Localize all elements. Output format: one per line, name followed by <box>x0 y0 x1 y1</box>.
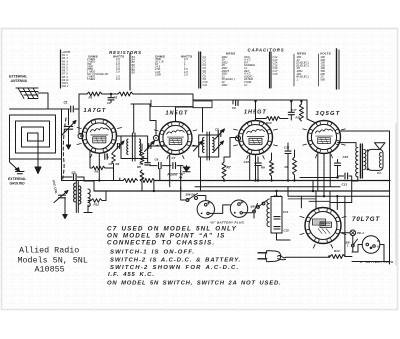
wire V4 to output transformer <box>338 143 357 147</box>
wire T2 to V1 <box>117 136 160 146</box>
wire rail B minus <box>62 180 124 182</box>
svg-text:R13: R13 <box>334 249 340 253</box>
svg-text:C11: C11 <box>203 83 208 87</box>
B battery plug J1 right <box>230 200 247 217</box>
tube V4 3Q5GT <box>303 121 346 158</box>
wire top rail <box>79 93 87 95</box>
svg-text:C7: C7 <box>172 156 176 160</box>
svg-text:A–: A– <box>376 246 381 249</box>
svg-text:1A7GT: 1A7GT <box>84 108 107 114</box>
svg-text:C13: C13 <box>342 183 348 187</box>
grid cap V2 <box>153 135 158 140</box>
wire second rail <box>131 103 151 105</box>
wire point A <box>180 166 182 191</box>
osc trimmer arrow <box>59 195 66 198</box>
svg-text:MFDS: MFDS <box>297 52 306 56</box>
svg-text:SW-2: SW-2 <box>274 194 282 198</box>
ground <box>68 139 70 145</box>
svg-text:C11: C11 <box>284 146 290 150</box>
svg-text:I.F.: I.F. <box>244 83 248 87</box>
tube V1 1A7GT <box>77 119 121 158</box>
resistor R12 <box>91 199 102 203</box>
wire junction <box>290 100 292 102</box>
svg-text:C17: C17 <box>291 108 297 112</box>
capacitor table right border <box>336 49 338 89</box>
resistor R3 <box>92 166 105 170</box>
wire between plugs <box>209 205 252 214</box>
title block Allied Radio <box>18 246 88 275</box>
scan edge shadow <box>395 123 397 266</box>
wire V1 cathode <box>90 150 114 181</box>
svg-text:R11 2: R11 2 <box>62 85 69 88</box>
wire A plug <box>345 213 362 257</box>
T3 trimmer left <box>194 141 203 151</box>
svg-text:SWITCH-2 IS A.C-D.C. & BATTER: SWITCH-2 IS A.C-D.C. & BATTERY. <box>110 257 241 263</box>
svg-text:SWITCH-2 SHOWN FOR A.C-D.C.: SWITCH-2 SHOWN FOR A.C-D.C. <box>110 265 239 271</box>
wire antenna to loop <box>38 93 48 109</box>
svg-text:C14: C14 <box>283 210 289 214</box>
svg-text:R1: R1 <box>89 96 93 100</box>
svg-text:C1: C1 <box>64 101 68 105</box>
svg-text:PIL-1: PIL-1 <box>357 231 364 235</box>
svg-text:5 MEG: 5 MEG <box>87 77 95 81</box>
svg-text:C10: C10 <box>244 160 250 164</box>
svg-text:.0001: .0001 <box>221 83 228 87</box>
svg-text:SWITCH-1 IS ON-OFF.: SWITCH-1 IS ON-OFF. <box>110 250 195 256</box>
wire bottom verticals <box>288 195 390 197</box>
wire left bus <box>61 159 63 181</box>
external ground symbol <box>10 159 18 170</box>
capacitor C4 <box>105 154 107 160</box>
parts list column <box>60 50 62 88</box>
svg-text:C18: C18 <box>273 72 278 76</box>
diode D1 <box>186 166 188 167</box>
AC plug P1 <box>266 251 281 262</box>
svg-text:3Q5GT: 3Q5GT <box>316 111 341 117</box>
resistor R2 <box>118 92 133 96</box>
resistor R12a on rail <box>123 179 138 183</box>
wire rails mid <box>160 145 199 147</box>
oscillator coil T1 <box>76 181 78 213</box>
power cord <box>278 256 330 258</box>
svg-text:V.C.: V.C. <box>377 171 382 175</box>
svg-text:ANTENNA: ANTENNA <box>10 79 28 83</box>
osc coil label <box>52 179 59 194</box>
table center divider <box>199 52 201 88</box>
T3 trimmer right <box>215 141 224 151</box>
resistor R1 <box>87 92 102 96</box>
wire rail verticals <box>120 178 313 196</box>
wire rail B minus right <box>155 180 391 182</box>
svg-text:B9: B9 <box>132 71 136 75</box>
tube V5 70L7GT <box>300 208 346 249</box>
wire V3 bottom <box>250 154 256 181</box>
svg-text:“B” BATTERY PLUG: “B” BATTERY PLUG <box>210 221 245 225</box>
capacitor C9 <box>232 100 234 104</box>
svg-text:R5: R5 <box>137 165 141 169</box>
wire rail mid short <box>195 186 340 188</box>
wire V4 bottom <box>318 153 330 197</box>
wire rail bottom <box>330 202 352 204</box>
loop antenna L1 spiral <box>10 109 62 159</box>
svg-text:C9: C9 <box>232 106 236 110</box>
wire speaker bus <box>300 177 338 179</box>
grid cap V3 <box>235 136 240 141</box>
loop center tap wire <box>37 133 39 167</box>
wire V4 plate to speaker <box>341 131 390 264</box>
wire V2 plate <box>170 107 193 187</box>
svg-text:C2: C2 <box>107 101 111 105</box>
svg-text:R7: R7 <box>227 166 231 170</box>
svg-text:I.F. 455 K.C.: I.F. 455 K.C. <box>108 272 155 278</box>
svg-text:R2: R2 <box>114 96 118 100</box>
svg-text:C18: C18 <box>343 155 349 159</box>
tube V2 1N5GT <box>154 122 197 159</box>
svg-text:Allied Radio: Allied Radio <box>19 246 79 256</box>
wire V3 left <box>224 138 239 158</box>
B battery plug J1 left <box>197 201 214 218</box>
resistor R4 <box>112 152 116 164</box>
pilot lamp PIL-1 <box>350 230 356 236</box>
speaker SPK <box>368 149 383 170</box>
svg-text:R8: R8 <box>261 166 265 170</box>
svg-text:R12: R12 <box>94 203 100 207</box>
svg-text:CONNECTED TO CHASSIS.: CONNECTED TO CHASSIS. <box>107 239 215 246</box>
notes text block <box>107 226 281 287</box>
resistor R5 <box>140 150 144 164</box>
loop boundary dashed line <box>63 118 67 181</box>
svg-text:R4: R4 <box>116 162 120 166</box>
IF transformer T2 <box>121 136 148 159</box>
svg-text:70L7GT: 70L7GT <box>352 216 380 223</box>
wire top rail right <box>133 94 307 100</box>
resistor R10 <box>266 117 280 121</box>
svg-text:1/3: 1/3 <box>184 72 188 76</box>
svg-text:R3: R3 <box>95 170 99 174</box>
svg-text:GROUND: GROUND <box>10 181 26 185</box>
A battery plug J2 <box>362 236 380 254</box>
wire coil top <box>84 181 94 191</box>
antenna lead-in symbol <box>16 88 38 99</box>
output transformer T4 <box>356 148 358 177</box>
wire V4 top pin <box>307 100 316 123</box>
resistor R12b on rail <box>141 179 155 183</box>
capacitor C2 <box>110 94 112 97</box>
svg-text:R10: R10 <box>266 121 272 125</box>
resistor R7 <box>222 162 226 179</box>
svg-text:1/3: 1/3 <box>116 70 120 74</box>
svg-text:C7 USED ON MODEL 5NL ONLY: C7 USED ON MODEL 5NL ONLY <box>107 226 237 233</box>
ground <box>64 209 66 215</box>
filter choke L2 <box>271 197 282 234</box>
svg-text:600: 600 <box>321 77 326 81</box>
T2 trimmer right <box>149 144 151 149</box>
wire shield box above T3 <box>193 101 212 108</box>
resistor table divider <box>129 53 131 90</box>
wire V3 grid top <box>255 101 257 120</box>
svg-text:220K: 220K <box>154 72 161 76</box>
wire <box>102 93 118 95</box>
svg-text:A10855: A10855 <box>35 265 65 275</box>
svg-text:VOLTS: VOLTS <box>320 52 331 56</box>
T2 trimmer left <box>117 144 119 149</box>
IF transformer T3 <box>199 135 219 157</box>
svg-text:1N5GT: 1N5GT <box>166 111 189 117</box>
svg-text:CAPACITORS: CAPACITORS <box>247 47 284 52</box>
svg-text:C6: C6 <box>155 157 159 161</box>
trimmer capacitor <box>68 109 70 125</box>
junction dots <box>254 100 256 102</box>
resistor R6 vertical <box>140 170 144 182</box>
wire rail to T2 core <box>133 104 135 133</box>
wire screen box <box>151 100 193 107</box>
wire V2 top <box>150 104 156 135</box>
wire choke top <box>277 191 291 240</box>
svg-text:1/3: 1/3 <box>116 77 120 81</box>
wire rail ground <box>94 190 390 192</box>
tube V3 1H5GT <box>234 121 278 160</box>
svg-text:ON MODEL 5N SWITCH, SWITCH 2A: ON MODEL 5N SWITCH, SWITCH 2A NOT USED. <box>107 281 281 287</box>
grid cap V1 <box>78 133 83 138</box>
svg-text:C15: C15 <box>284 229 290 233</box>
capacitor table divider <box>270 52 272 88</box>
